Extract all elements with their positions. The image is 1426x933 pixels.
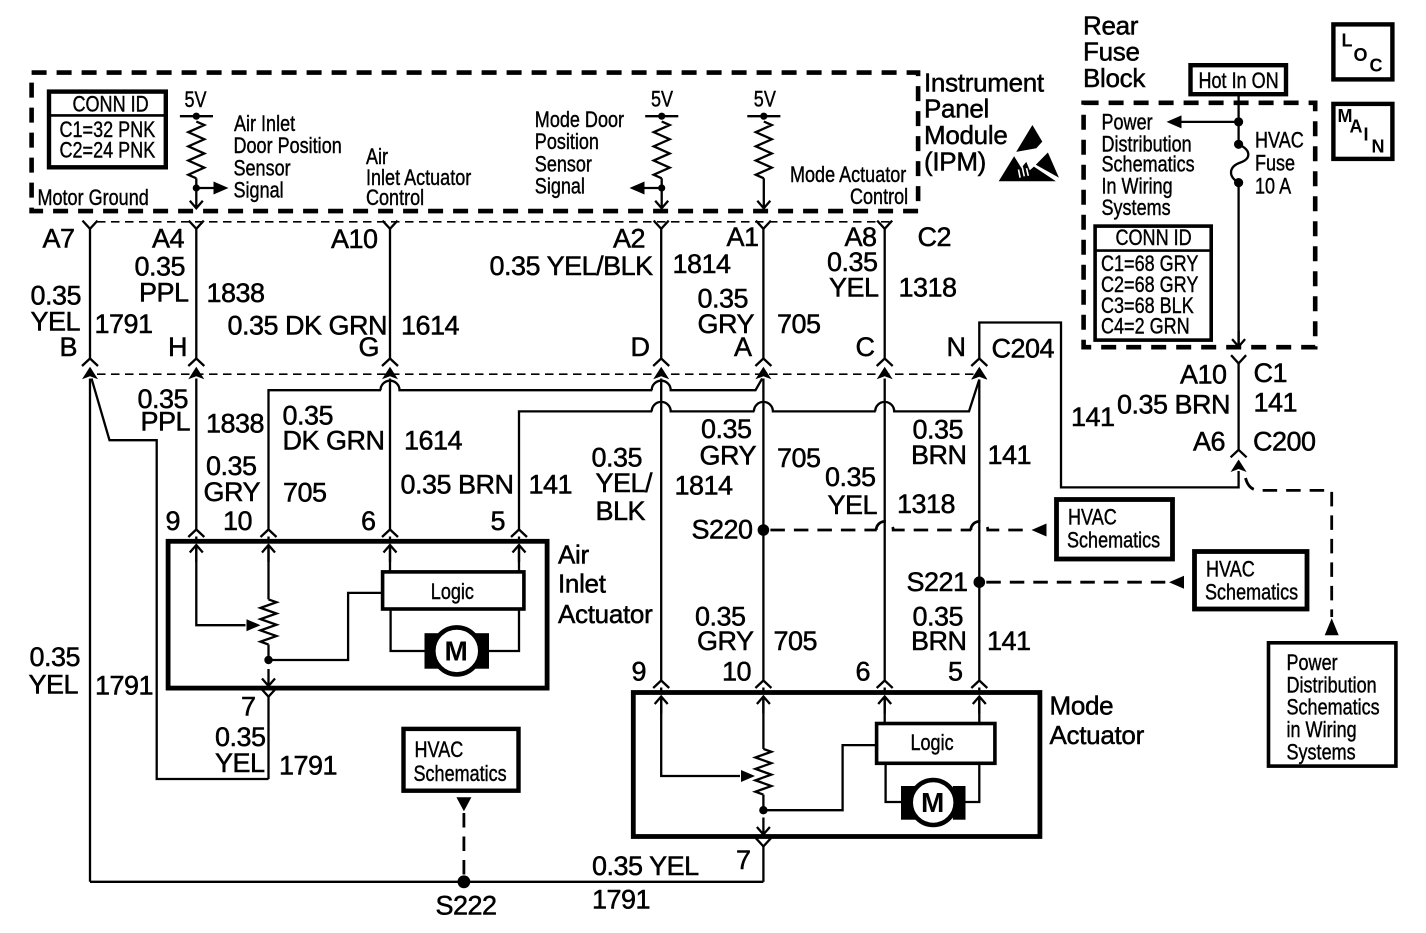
connector terminal C204 pin C [877,359,893,367]
wire air pot to pin 7 [262,669,275,686]
wire logic to motor right (air) [489,609,519,651]
svg-text:C: C [856,332,875,362]
svg-text:C2: C2 [918,222,952,252]
svg-text:C: C [1370,55,1383,75]
connector terminal pin A10 [383,221,398,229]
svg-text:BRN: BRN [911,626,967,656]
svg-text:Position: Position [535,131,599,155]
connector terminal mode pin 7 [756,838,771,846]
svg-text:10: 10 [722,657,751,687]
svg-text:HVAC: HVAC [1255,129,1304,153]
svg-text:1318: 1318 [899,272,957,302]
svg-text:Mode Door: Mode Door [535,108,624,132]
svg-text:B: B [60,332,78,362]
svg-text:Signal: Signal [234,179,284,203]
connector terminal C204 pin B [82,359,98,367]
wire air pin 10 internal [262,545,275,562]
svg-text:7: 7 [241,692,256,722]
connector terminal mode pin 10 [755,681,771,689]
svg-text:N: N [947,332,966,362]
connector line IPM (thin dashed) [97,221,895,223]
svg-text:A10: A10 [331,224,378,254]
wire air pot junction to logic [269,593,383,660]
svg-text:A2: A2 [613,224,645,254]
svg-text:Control: Control [366,187,424,211]
connector terminal C204 pin H [188,359,204,367]
svg-text:GRY: GRY [204,477,261,507]
resistor R2 (mode door position sensor) [654,122,670,179]
wire A2 to C204-D (0.35 YEL/BLK) [660,229,662,359]
dashed reference S221 to HVAC Schematics [986,581,1167,584]
wire C204-N down to splice S221 (0.35 BRN 141) [978,380,980,583]
svg-text:in Wiring: in Wiring [1287,719,1357,743]
wire mode pot junction to logic [763,745,876,810]
svg-text:CONN ID: CONN ID [73,93,149,117]
node junction R1 output [195,178,197,188]
wire R2 to pin A2 [655,188,668,208]
connector terminal pin A1 [756,221,771,229]
wire mode pin 5 internal [973,697,986,714]
splice S220 [758,524,770,536]
splice S222 [458,875,471,888]
svg-text:A1: A1 [727,222,759,252]
fuse HVAC Fuse 10A [1234,140,1243,149]
svg-text:I: I [1364,124,1369,144]
connector terminal pin A7 [83,221,98,229]
svg-text:0.35: 0.35 [701,414,752,444]
svg-text:0.35 BRN: 0.35 BRN [401,470,514,500]
svg-text:Door Position: Door Position [234,135,342,159]
wire C204-N branch to air inlet pin 5 [519,380,979,531]
svg-text:5V: 5V [754,88,777,112]
arrow air inlet sensor signal [196,187,213,189]
motor M1 air inlet actuator [425,633,441,669]
svg-text:7: 7 [736,845,751,875]
connector terminal pin A2 [654,221,669,229]
svg-text:Schematics: Schematics [1102,153,1195,177]
arrow to power distribution schematics [1181,121,1239,123]
svg-text:M: M [445,636,468,667]
svg-text:C2=24 PNK: C2=24 PNK [60,139,156,163]
svg-text:Sensor: Sensor [535,153,592,177]
CONN ID table (rear fuse block connectors) [1095,226,1211,340]
reference box HVAC Schematics (S221) [1195,552,1308,610]
svg-text:1814: 1814 [673,249,732,279]
svg-text:Fuse: Fuse [1255,152,1295,176]
wire C204-A down to splice S220 [762,379,764,531]
wire mode pin 7 to ground run [762,846,764,881]
mode actuator box [633,693,1040,837]
wire air pin 6 internal [384,545,397,562]
wire R3 to pin A1 [757,178,770,208]
svg-text:Mode: Mode [1050,691,1114,721]
svg-text:C4=2 GRN: C4=2 GRN [1101,315,1190,339]
svg-text:A: A [734,332,752,362]
wire C204-N to C200-A6 (0.35 BRN 141 loop) [979,323,1238,488]
svg-text:YEL: YEL [828,490,878,520]
svg-text:Schematics: Schematics [1205,581,1298,605]
dashed reference S220 to HVAC Schematics [770,522,1030,531]
svg-text:705: 705 [774,626,818,656]
svg-text:(IPM): (IPM) [924,147,986,177]
svg-text:705: 705 [777,309,821,339]
svg-text:A: A [1350,116,1363,136]
svg-text:Air Inlet: Air Inlet [234,112,296,136]
svg-text:Schematics: Schematics [1067,529,1160,553]
wire ground run B to mode pin 7 (0.35 YEL 1791) [90,881,763,883]
connector terminal C200 pin A6 [1231,450,1247,458]
svg-text:Motor Ground: Motor Ground [38,187,149,211]
svg-text:YEL: YEL [29,670,79,700]
svg-text:Power: Power [1287,651,1338,675]
svg-text:Mode Actuator: Mode Actuator [790,163,907,187]
svg-text:5V: 5V [185,88,208,112]
wire mode pin 9 internal (wiper drive) [655,697,668,714]
svg-text:BLK: BLK [596,496,646,526]
wire air pin 5 internal [513,545,526,562]
feed label box Hot In ON [1191,65,1287,94]
svg-text:6: 6 [856,657,871,687]
potentiometer air inlet position sensor [261,599,277,644]
wire C204-C to mode actuator pin 6 [884,379,886,683]
svg-text:1614: 1614 [401,311,460,341]
wire C204-B down to splice S222 run (0.35 YEL 1791) [89,379,91,882]
wire A10 to C204-G (0.35 DK GRN 1614) [389,229,391,359]
dashed reference C200 to power distribution schematics [1246,478,1332,617]
svg-text:10: 10 [223,506,252,536]
Rear Fuse Block dashed enclosure [1084,103,1316,347]
svg-text:5: 5 [491,506,506,536]
svg-text:Control: Control [850,186,908,210]
svg-text:Systems: Systems [1287,741,1356,765]
svg-text:1318: 1318 [897,489,955,519]
logic module U1 (air inlet) [383,572,524,609]
svg-text:0.35 YEL/BLK: 0.35 YEL/BLK [490,251,654,281]
wire C204-D to mode actuator pin 9 [660,379,662,683]
node junction power distribution tap [1234,117,1243,126]
svg-text:G: G [359,332,380,362]
wire air pin 7 to motor ground (0.35 YEL 1791) [267,697,269,779]
connector terminal pin A8 [877,221,892,229]
reference box HVAC Schematics (S222) [404,729,519,791]
wire Hot In ON to fuse [1237,94,1239,144]
svg-text:S220: S220 [692,515,753,545]
svg-text:Sensor: Sensor [234,157,291,181]
svg-text:141: 141 [1254,388,1298,418]
svg-text:M: M [921,787,944,818]
motor M2 mode actuator [901,786,918,820]
svg-text:Actuator: Actuator [1050,720,1145,750]
svg-text:DK GRN: DK GRN [283,425,385,455]
wire mode pin 10 internal [757,697,770,714]
wire A4 to C204-H (0.35 PPL 1838) [195,229,197,359]
svg-text:A7: A7 [43,224,75,254]
svg-text:Logic: Logic [431,580,474,604]
svg-text:Hot In ON: Hot In ON [1199,69,1279,93]
svg-text:CONN ID: CONN ID [1116,226,1192,250]
ESD sensitive device symbol [1016,125,1042,152]
svg-text:1791: 1791 [592,885,650,915]
svg-text:D: D [631,332,650,362]
svg-text:1791: 1791 [279,751,337,781]
svg-text:H: H [168,332,187,362]
connector terminal mode pin 5 [971,681,987,689]
svg-text:1791: 1791 [95,671,153,701]
Instrument Panel Module (IPM) dashed enclosure [32,73,919,212]
wire mode pin 6 internal [878,697,891,714]
wire C1 to C200 (0.35 BRN) [1237,364,1239,450]
svg-text:Distribution: Distribution [1287,674,1377,698]
connector terminal C1 pin A10 [1231,355,1246,363]
svg-text:1614: 1614 [404,425,463,455]
svg-text:A10: A10 [1180,360,1227,390]
connector terminal C204 pin D [653,359,669,367]
node potentiometer low junction (air) [267,645,269,661]
wire A1 to C204-A (0.35 GRY 705) [762,229,764,359]
svg-text:N: N [1372,137,1385,157]
svg-text:705: 705 [777,443,821,473]
wire A8 to C204-C (0.35 YEL 1318) [884,229,886,359]
svg-text:Block: Block [1083,63,1146,93]
svg-text:5V: 5V [651,88,674,112]
logic module U2 (mode) [877,724,995,764]
zone box LOC [1333,24,1392,79]
svg-text:S221: S221 [907,567,968,597]
wire C204-G to air inlet actuator pin 6 [389,379,391,531]
svg-text:1814: 1814 [675,471,734,501]
svg-text:A6: A6 [1193,426,1225,456]
svg-text:GRY: GRY [697,626,754,656]
svg-text:705: 705 [283,478,327,508]
svg-text:141: 141 [988,440,1032,470]
svg-text:9: 9 [166,506,181,536]
connector terminal mode pin 9 [653,681,669,689]
svg-text:Actuator: Actuator [558,599,653,629]
dashed reference S222 to HVAC Schematics [456,797,471,811]
svg-text:Schematics: Schematics [1287,696,1380,720]
arrow mode door sensor signal [645,187,662,189]
connector terminal C204 pin A [755,359,771,367]
svg-text:141: 141 [529,470,573,500]
svg-text:YEL: YEL [829,272,879,302]
svg-text:0.35 YEL: 0.35 YEL [592,851,699,881]
svg-text:O: O [1354,45,1368,65]
svg-text:1838: 1838 [206,409,264,439]
svg-text:HVAC: HVAC [1068,506,1117,530]
svg-text:10 A: 10 A [1255,175,1292,199]
reference box HVAC Schematics (S220) [1057,500,1173,560]
zone box MAIN [1333,104,1392,159]
svg-text:0.35: 0.35 [30,642,81,672]
potentiometer mode door position sensor [755,749,771,795]
svg-text:PPL: PPL [141,406,191,436]
wire S221 to mode actuator pin 5 (0.35 BRN 141) [978,582,980,682]
svg-text:6: 6 [361,506,376,536]
wire logic to motor right (mode) [966,763,980,802]
wire C204-A branch to air inlet pin 10 [269,379,763,531]
resistor R1 (air inlet position sensor) [188,122,204,179]
node junction R2 output [661,178,663,188]
svg-text:A4: A4 [152,224,185,254]
svg-text:1791: 1791 [95,309,153,339]
connector terminal air inlet pin 5 [511,530,527,538]
reference box Power Distribution Schematics in Wiring Systems [1269,643,1396,766]
svg-text:L: L [1342,31,1353,51]
svg-text:0.35: 0.35 [825,462,876,492]
connector terminal C204 pin G [382,359,398,367]
svg-text:9: 9 [632,657,647,687]
svg-text:YEL/: YEL/ [596,468,654,498]
wire air pin 9 internal (wiper drive) [190,545,203,562]
svg-text:Signal: Signal [535,175,585,199]
svg-text:Air: Air [558,540,590,570]
wire logic to motor left (mode) [886,763,901,802]
connector terminal mode pin 6 [877,681,893,689]
svg-text:141: 141 [1071,402,1115,432]
node potentiometer low junction (mode) [762,795,764,811]
wire R1 to pin A4 [190,188,203,208]
connector terminal air inlet pin 6 [382,530,398,538]
svg-text:Inlet: Inlet [558,569,607,599]
svg-text:Power: Power [1102,111,1153,135]
svg-text:C204: C204 [992,334,1055,364]
power rail 5V #1 [180,115,213,117]
air inlet actuator box [168,541,547,688]
svg-text:C200: C200 [1253,426,1316,456]
wire A7 to C204-B (0.35 YEL 1791) [89,229,91,359]
connector terminal air inlet pin 10 [261,530,277,538]
connector terminal air inlet pin 7 [261,689,276,697]
wire logic to motor left (air) [391,609,425,651]
svg-text:Schematics: Schematics [414,762,507,786]
connector line C204 (thin dashed) [97,373,979,375]
svg-text:BRN: BRN [911,440,967,470]
wire branch B to air-inlet pin 7 (motor ground) [92,379,269,780]
connector terminal C204 pin N [971,359,987,367]
svg-text:5: 5 [948,657,963,687]
svg-text:1838: 1838 [207,278,265,308]
power rail 5V #2 [645,115,678,117]
splice S221 [974,576,986,588]
svg-text:GRY: GRY [700,441,757,471]
wire C204-H to air inlet actuator pin 9 [195,379,197,531]
wire S220 to mode actuator pin 10 (0.35 GRY 705) [762,530,764,682]
connector terminal air inlet pin 9 [188,530,204,538]
power rail 5V #3 [747,115,780,117]
svg-text:0.35 BRN: 0.35 BRN [1117,390,1230,420]
svg-text:PPL: PPL [139,278,189,308]
wire fuse to connector C1-A10 [1237,183,1239,347]
svg-text:Systems: Systems [1102,196,1171,220]
svg-text:HVAC: HVAC [415,738,464,762]
svg-text:C1: C1 [1254,358,1288,388]
svg-text:Logic: Logic [911,731,954,755]
svg-text:141: 141 [987,626,1031,656]
wire mode pot to pin 7 [757,818,770,835]
CONN ID table (IPM connectors C1/C2) [49,92,166,168]
resistor R3 (mode actuator control) [756,122,772,179]
svg-text:S222: S222 [436,891,497,921]
svg-text:YEL: YEL [215,748,265,778]
connector terminal pin A4 [189,221,204,229]
svg-text:HVAC: HVAC [1206,558,1255,582]
